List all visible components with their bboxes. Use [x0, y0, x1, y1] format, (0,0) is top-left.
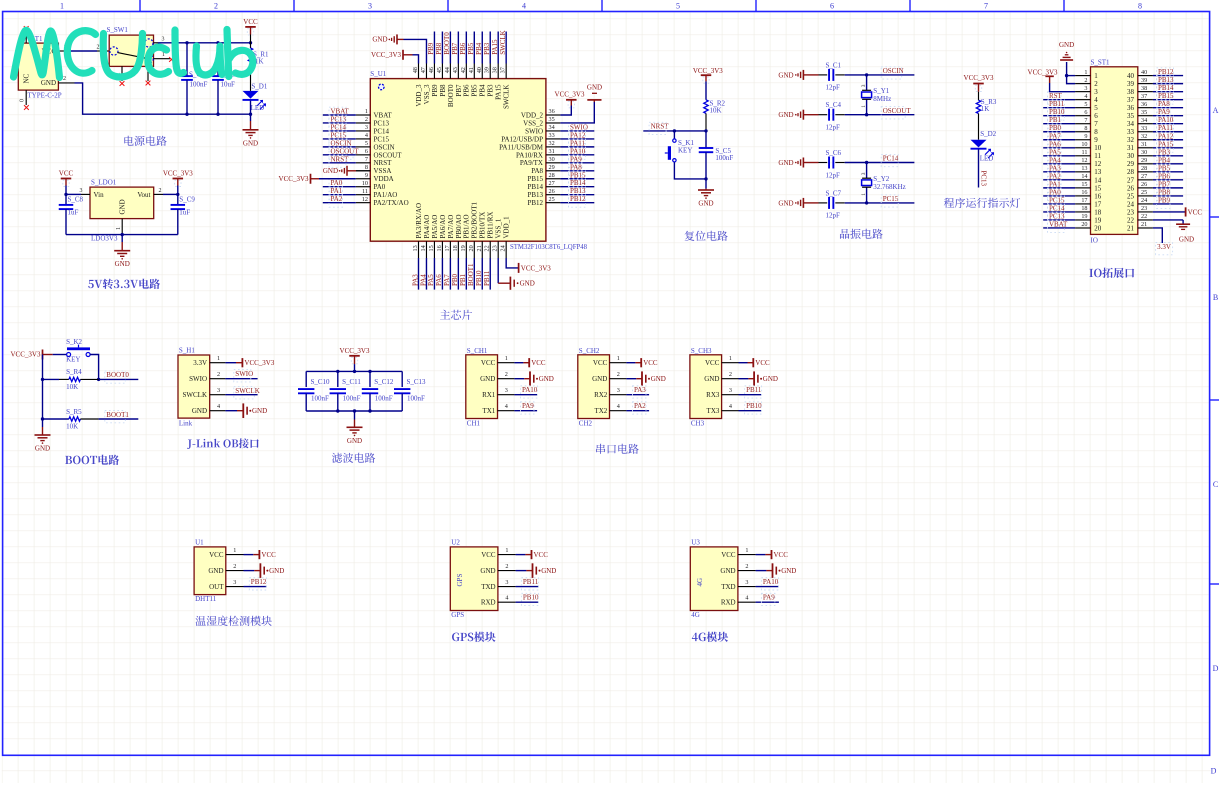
svg-text:PA0: PA0 — [374, 183, 386, 191]
svg-text:VCC_3V3: VCC_3V3 — [340, 347, 370, 355]
svg-text:PA7/AO: PA7/AO — [447, 215, 455, 239]
svg-text:10: 10 — [1094, 144, 1102, 152]
svg-text:VBAT: VBAT — [331, 108, 350, 116]
svg-text:S_H1: S_H1 — [179, 347, 195, 355]
svg-text:2: 2 — [505, 563, 508, 570]
svg-text:S_R5: S_R5 — [66, 408, 82, 416]
svg-text:PA2: PA2 — [634, 402, 646, 410]
svg-text:PA10/RX: PA10/RX — [516, 151, 543, 159]
svg-text:12pF: 12pF — [826, 212, 841, 220]
svg-text:PA3: PA3 — [634, 386, 646, 394]
svg-text:VCC: VCC — [705, 359, 720, 367]
svg-text:29: 29 — [1141, 157, 1147, 164]
svg-text:C: C — [1213, 480, 1218, 489]
svg-text:3: 3 — [729, 387, 732, 394]
svg-text:38: 38 — [1127, 88, 1135, 96]
svg-text:26: 26 — [1141, 181, 1147, 188]
svg-text:PA9: PA9 — [570, 155, 582, 163]
svg-text:VCC_3V3: VCC_3V3 — [163, 170, 193, 178]
svg-text:6: 6 — [365, 148, 368, 155]
svg-text:PB11: PB11 — [746, 386, 762, 394]
svg-text:S_ST1: S_ST1 — [1091, 59, 1111, 67]
svg-text:PB13: PB13 — [570, 187, 586, 195]
svg-text:2: 2 — [1084, 77, 1087, 84]
svg-text:BOOT0: BOOT0 — [443, 32, 451, 55]
svg-text:1: 1 — [505, 355, 508, 362]
svg-text:26: 26 — [549, 188, 555, 195]
svg-text:PA9: PA9 — [1158, 108, 1170, 116]
svg-text:GND: GND — [243, 139, 258, 147]
svg-text:VSS_1: VSS_1 — [495, 218, 503, 238]
svg-text:OSCOUT: OSCOUT — [331, 147, 360, 155]
svg-text:TX3: TX3 — [707, 407, 720, 415]
svg-text:PA12: PA12 — [570, 131, 586, 139]
svg-text:PB11: PB11 — [483, 270, 491, 286]
svg-text:39: 39 — [1127, 80, 1135, 88]
svg-text:4: 4 — [1084, 93, 1087, 100]
svg-text:32: 32 — [549, 140, 555, 147]
svg-text:3: 3 — [162, 37, 165, 43]
svg-text:19: 19 — [1094, 216, 1102, 224]
svg-text:PA9: PA9 — [522, 402, 534, 410]
svg-text:29: 29 — [1127, 160, 1135, 168]
svg-text:OSCOUT: OSCOUT — [883, 107, 912, 115]
svg-text:32: 32 — [1141, 133, 1147, 140]
svg-text:PC15: PC15 — [883, 195, 899, 203]
svg-text:PB5: PB5 — [1158, 164, 1171, 172]
svg-text:PB15: PB15 — [527, 175, 543, 183]
svg-text:GPS: GPS — [451, 611, 464, 619]
svg-text:3: 3 — [365, 124, 368, 131]
svg-text:VCC: VCC — [243, 18, 258, 26]
svg-text:PA5/AO: PA5/AO — [431, 215, 439, 239]
svg-text:36: 36 — [1141, 101, 1147, 108]
svg-text:VSSA: VSSA — [374, 167, 392, 175]
svg-text:S_K2: S_K2 — [66, 338, 82, 346]
svg-text:D: D — [1211, 767, 1217, 776]
svg-text:PC13: PC13 — [374, 119, 390, 127]
svg-text:PB7: PB7 — [451, 42, 459, 55]
svg-text:RX1: RX1 — [482, 391, 496, 399]
svg-text:GND: GND — [208, 567, 223, 575]
svg-text:OSCIN: OSCIN — [331, 139, 352, 147]
svg-text:SWIO: SWIO — [525, 127, 543, 135]
svg-text:1: 1 — [1084, 69, 1087, 76]
svg-text:GND: GND — [520, 280, 535, 288]
svg-text:2: 2 — [233, 563, 236, 570]
svg-text:10K: 10K — [66, 383, 78, 391]
svg-text:18: 18 — [1094, 208, 1102, 216]
svg-text:4G: 4G — [691, 611, 700, 619]
svg-text:PA4: PA4 — [1049, 156, 1061, 164]
svg-text:1: 1 — [745, 547, 748, 554]
svg-text:PA2/TX/AO: PA2/TX/AO — [374, 199, 409, 207]
svg-text:2: 2 — [745, 563, 748, 570]
svg-text:GND: GND — [1179, 236, 1194, 244]
svg-text:26: 26 — [1127, 184, 1135, 192]
svg-text:1: 1 — [233, 547, 236, 554]
svg-text:PA12/USB/DP: PA12/USB/DP — [501, 135, 543, 143]
svg-text:PB5: PB5 — [471, 84, 479, 97]
svg-text:PA2: PA2 — [331, 195, 343, 203]
svg-text:28: 28 — [549, 172, 555, 179]
svg-text:3: 3 — [217, 387, 220, 394]
svg-text:VCC_3V3: VCC_3V3 — [1028, 68, 1058, 76]
svg-text:GND: GND — [347, 437, 362, 445]
svg-text:PB12: PB12 — [251, 578, 267, 586]
svg-text:12: 12 — [362, 196, 368, 203]
svg-text:PB8: PB8 — [435, 42, 443, 55]
svg-text:PA4: PA4 — [419, 274, 427, 286]
svg-text:S_Y1: S_Y1 — [873, 87, 889, 95]
svg-text:PB1: PB1 — [1049, 116, 1062, 124]
svg-text:0: 0 — [19, 99, 25, 102]
svg-text:5: 5 — [365, 140, 368, 147]
svg-text:PB12: PB12 — [527, 199, 543, 207]
svg-text:S_C12: S_C12 — [374, 378, 394, 386]
svg-text:4: 4 — [617, 403, 620, 410]
svg-text:PB6: PB6 — [1158, 172, 1171, 180]
svg-text:S_C6: S_C6 — [826, 149, 842, 157]
svg-text:PB9: PB9 — [427, 42, 435, 55]
svg-text:2: 2 — [97, 44, 100, 50]
svg-text:PA11/USB/DM: PA11/USB/DM — [499, 143, 544, 151]
svg-text:1K: 1K — [981, 105, 990, 113]
svg-text:5: 5 — [1094, 104, 1098, 112]
svg-text:PC14: PC14 — [1049, 204, 1065, 212]
svg-text:BOOT0: BOOT0 — [447, 84, 455, 107]
svg-text:OSCIN: OSCIN — [883, 67, 904, 75]
svg-text:2: 2 — [505, 371, 508, 378]
svg-text:37: 37 — [1141, 93, 1147, 100]
svg-text:TXD: TXD — [721, 583, 735, 591]
svg-text:RXD: RXD — [481, 599, 496, 607]
svg-text:100nF: 100nF — [311, 394, 329, 402]
svg-text:B: B — [1213, 293, 1218, 302]
svg-text:GND: GND — [539, 375, 554, 383]
svg-text:6: 6 — [1084, 109, 1087, 116]
svg-text:PB12: PB12 — [570, 195, 586, 203]
svg-text:KEY: KEY — [66, 356, 80, 364]
svg-text:STM32F103C8T6_LQFP48: STM32F103C8T6_LQFP48 — [510, 244, 588, 251]
svg-text:LED: LED — [980, 155, 994, 163]
svg-text:1: 1 — [365, 108, 368, 115]
svg-text:PA7: PA7 — [443, 274, 451, 286]
svg-text:CH3: CH3 — [691, 420, 705, 428]
svg-text:GND: GND — [269, 567, 284, 575]
svg-text:BOOT0: BOOT0 — [106, 371, 129, 379]
svg-text:11: 11 — [1094, 152, 1101, 160]
svg-text:3: 3 — [861, 172, 867, 175]
svg-text:PB9: PB9 — [431, 84, 439, 97]
svg-text:S_CH3: S_CH3 — [691, 347, 712, 355]
svg-text:34: 34 — [549, 124, 555, 131]
svg-text:27: 27 — [1141, 173, 1147, 180]
svg-text:PB10: PB10 — [746, 402, 762, 410]
svg-text:100nF: 100nF — [715, 154, 733, 162]
svg-text:GND: GND — [778, 199, 793, 207]
svg-text:GND: GND — [592, 375, 607, 383]
svg-text:S_D2: S_D2 — [980, 130, 996, 138]
svg-text:21: 21 — [1141, 221, 1147, 228]
svg-text:23: 23 — [1127, 208, 1135, 216]
svg-text:4: 4 — [217, 403, 220, 410]
svg-text:GND: GND — [698, 200, 713, 208]
svg-text:35: 35 — [549, 116, 555, 123]
svg-text:SWCLK: SWCLK — [183, 391, 208, 399]
svg-text:35: 35 — [1127, 112, 1135, 120]
svg-text:VCC: VCC — [534, 551, 549, 559]
svg-text:KEY: KEY — [678, 146, 692, 154]
svg-text:SWCLK: SWCLK — [499, 30, 507, 54]
svg-text:TX2: TX2 — [594, 407, 607, 415]
svg-text:S_D1: S_D1 — [251, 82, 267, 90]
svg-text:VCC: VCC — [531, 359, 546, 367]
svg-text:VBAT: VBAT — [1049, 220, 1068, 228]
svg-text:12pF: 12pF — [826, 171, 841, 179]
svg-text:3: 3 — [1084, 85, 1087, 92]
svg-text:20: 20 — [1081, 221, 1087, 228]
svg-text:PB10: PB10 — [523, 594, 539, 602]
svg-text:PC14: PC14 — [331, 123, 347, 131]
svg-text:VCC: VCC — [593, 359, 608, 367]
svg-text:PA3: PA3 — [1049, 164, 1061, 172]
svg-text:NRST: NRST — [374, 159, 393, 167]
svg-text:10uF: 10uF — [221, 81, 236, 89]
svg-text:U1: U1 — [195, 538, 204, 546]
svg-text:36: 36 — [549, 108, 555, 115]
svg-text:SWCLK: SWCLK — [235, 387, 259, 395]
svg-text:GND: GND — [778, 71, 793, 79]
svg-text:PB0: PB0 — [1049, 124, 1062, 132]
svg-text:PB3: PB3 — [1158, 148, 1171, 156]
svg-text:GND: GND — [372, 36, 387, 44]
svg-text:33: 33 — [1127, 128, 1135, 136]
svg-text:38: 38 — [1141, 85, 1147, 92]
svg-text:GND: GND — [323, 167, 338, 175]
svg-text:S_C8: S_C8 — [68, 196, 84, 204]
svg-text:3: 3 — [368, 2, 372, 11]
svg-text:PB6: PB6 — [459, 42, 467, 55]
svg-text:34: 34 — [1141, 117, 1147, 124]
svg-text:30: 30 — [549, 156, 555, 163]
svg-text:37: 37 — [1127, 96, 1135, 104]
svg-text:1: 1 — [217, 355, 220, 362]
svg-text:32.768KHz: 32.768KHz — [873, 183, 905, 191]
svg-text:13: 13 — [1094, 168, 1102, 176]
svg-text:PA0: PA0 — [331, 179, 343, 187]
svg-text:NC: NC — [23, 73, 31, 83]
svg-text:33: 33 — [549, 132, 555, 139]
svg-text:GND: GND — [480, 375, 495, 383]
svg-text:PA6/AO: PA6/AO — [439, 215, 447, 239]
svg-text:6: 6 — [1094, 112, 1098, 120]
svg-text:S_Y2: S_Y2 — [873, 175, 889, 183]
svg-text:PA3/RX/AO: PA3/RX/AO — [415, 203, 423, 239]
svg-text:CH2: CH2 — [579, 420, 593, 428]
svg-text:RST: RST — [1049, 92, 1063, 100]
svg-text:9: 9 — [1094, 136, 1098, 144]
svg-text:DHT11: DHT11 — [195, 595, 217, 603]
svg-text:1uF: 1uF — [68, 209, 79, 217]
svg-text:PA9: PA9 — [763, 594, 775, 602]
svg-text:BOOT1: BOOT1 — [467, 263, 475, 286]
svg-text:2: 2 — [365, 116, 368, 123]
svg-text:PB5: PB5 — [467, 42, 475, 55]
svg-text:1: 1 — [729, 355, 732, 362]
svg-text:PB15: PB15 — [570, 171, 586, 179]
svg-text:16: 16 — [1094, 192, 1102, 200]
svg-text:S_C1: S_C1 — [826, 61, 842, 69]
svg-text:30: 30 — [1141, 149, 1147, 156]
svg-text:PA0: PA0 — [1049, 188, 1061, 196]
svg-text:GPS: GPS — [456, 574, 464, 587]
svg-text:8: 8 — [1138, 2, 1142, 11]
svg-text:PB3: PB3 — [483, 42, 491, 55]
svg-text:3: 3 — [505, 387, 508, 394]
svg-text:8MHz: 8MHz — [873, 95, 891, 103]
svg-text:9: 9 — [365, 172, 368, 179]
svg-text:PB0: PB0 — [451, 273, 459, 286]
svg-text:U2: U2 — [451, 538, 460, 546]
svg-text:GND: GND — [587, 83, 602, 91]
svg-text:PB4: PB4 — [475, 42, 483, 55]
svg-text:10: 10 — [362, 180, 368, 187]
svg-text:31: 31 — [549, 148, 555, 155]
svg-text:PB14: PB14 — [1158, 84, 1174, 92]
svg-text:12: 12 — [1081, 157, 1087, 164]
svg-text:11: 11 — [362, 188, 368, 195]
svg-text:VDD_2: VDD_2 — [521, 111, 544, 119]
svg-text:LED: LED — [251, 104, 265, 112]
svg-text:PA10: PA10 — [1158, 116, 1174, 124]
svg-text:3: 3 — [1094, 88, 1098, 96]
svg-text:2: 2 — [217, 371, 220, 378]
svg-text:PC15: PC15 — [331, 131, 347, 139]
svg-text:8: 8 — [1094, 128, 1098, 136]
svg-text:VCC: VCC — [59, 170, 74, 178]
svg-text:Vout: Vout — [137, 191, 150, 199]
svg-text:PB6: PB6 — [463, 84, 471, 97]
svg-text:4: 4 — [729, 403, 732, 410]
svg-text:VCC_3V3: VCC_3V3 — [371, 51, 401, 59]
svg-text:GND: GND — [192, 407, 207, 415]
svg-text:18: 18 — [1081, 205, 1087, 212]
svg-text:13: 13 — [1081, 165, 1087, 172]
svg-text:28: 28 — [1127, 168, 1135, 176]
svg-text:33: 33 — [1141, 125, 1147, 132]
svg-text:2: 2 — [1094, 80, 1098, 88]
svg-text:39: 39 — [1141, 77, 1147, 84]
svg-text:PA6: PA6 — [1049, 140, 1061, 148]
svg-text:OSCOUT: OSCOUT — [374, 151, 403, 159]
svg-text:VSS_2: VSS_2 — [523, 119, 543, 127]
svg-text:PA8: PA8 — [570, 163, 582, 171]
svg-text:7: 7 — [1084, 117, 1087, 124]
svg-text:12pF: 12pF — [826, 84, 841, 92]
svg-text:VCC_3V3: VCC_3V3 — [11, 351, 41, 359]
svg-text:PB1/AO: PB1/AO — [463, 214, 471, 238]
svg-text:10K: 10K — [66, 423, 78, 431]
svg-text:1: 1 — [116, 227, 122, 230]
svg-text:CH1: CH1 — [467, 420, 481, 428]
svg-text:PB14: PB14 — [527, 183, 543, 191]
svg-text:VCC: VCC — [261, 551, 276, 559]
svg-text:34: 34 — [1127, 120, 1135, 128]
svg-text:24: 24 — [1127, 200, 1135, 208]
svg-text:PC14: PC14 — [374, 127, 390, 135]
svg-text:PB4: PB4 — [479, 84, 487, 97]
svg-text:1: 1 — [60, 2, 64, 11]
svg-text:3: 3 — [80, 188, 83, 194]
svg-text:LDO3V3: LDO3V3 — [91, 235, 118, 243]
svg-text:PB1: PB1 — [459, 273, 467, 286]
svg-text:28: 28 — [1141, 165, 1147, 172]
svg-text:VCC_3V3: VCC_3V3 — [244, 359, 274, 367]
svg-text:30: 30 — [1127, 152, 1135, 160]
svg-text:3: 3 — [617, 387, 620, 394]
svg-text:PB9: PB9 — [1158, 196, 1171, 204]
svg-text:2: 2 — [617, 371, 620, 378]
svg-text:3.3V: 3.3V — [1157, 243, 1171, 251]
svg-text:PB11/RX: PB11/RX — [487, 212, 495, 239]
svg-text:VCC_3V3: VCC_3V3 — [279, 175, 309, 183]
svg-text:5: 5 — [1084, 101, 1087, 108]
svg-text:S_R4: S_R4 — [66, 368, 82, 376]
svg-text:2: 2 — [159, 188, 162, 194]
svg-text:S_C9: S_C9 — [179, 196, 195, 204]
svg-text:PA10: PA10 — [522, 386, 538, 394]
svg-text:9: 9 — [1084, 133, 1087, 140]
svg-text:100nF: 100nF — [343, 394, 361, 402]
svg-text:2: 2 — [729, 371, 732, 378]
svg-text:GND: GND — [480, 567, 495, 575]
svg-text:OSCIN: OSCIN — [374, 143, 395, 151]
svg-text:3.3V: 3.3V — [193, 359, 207, 367]
svg-text:PC15: PC15 — [374, 135, 390, 143]
svg-text:16: 16 — [1081, 189, 1087, 196]
svg-text:14: 14 — [1094, 176, 1102, 184]
svg-text:VDDA: VDDA — [374, 175, 394, 183]
svg-text:PB2/BOOT1: PB2/BOOT1 — [471, 201, 479, 238]
svg-text:10K: 10K — [710, 107, 722, 115]
svg-text:19: 19 — [1081, 213, 1087, 220]
svg-text:TXD: TXD — [481, 583, 495, 591]
svg-text:OUT: OUT — [209, 583, 224, 591]
svg-text:PA15: PA15 — [491, 39, 499, 55]
svg-text:GND: GND — [720, 567, 735, 575]
svg-text:PA5: PA5 — [1049, 148, 1061, 156]
svg-text:1: 1 — [505, 547, 508, 554]
svg-text:RX2: RX2 — [594, 391, 608, 399]
svg-text:GND: GND — [651, 375, 666, 383]
svg-text:VCC: VCC — [481, 551, 496, 559]
svg-text:GND: GND — [781, 567, 796, 575]
svg-text:PB13: PB13 — [1158, 76, 1174, 84]
svg-text:5: 5 — [676, 2, 680, 11]
svg-text:PB3: PB3 — [487, 84, 495, 97]
svg-text:GND: GND — [1059, 41, 1074, 49]
svg-text:PB0/AO: PB0/AO — [455, 214, 463, 238]
svg-text:31: 31 — [1141, 141, 1147, 148]
svg-text:36: 36 — [1127, 104, 1135, 112]
svg-text:1: 1 — [861, 193, 867, 196]
svg-text:PB14: PB14 — [570, 179, 586, 187]
svg-text:GND: GND — [252, 407, 267, 415]
svg-text:11: 11 — [1082, 149, 1088, 156]
svg-text:VCC: VCC — [209, 551, 224, 559]
svg-text:PA15: PA15 — [495, 84, 503, 100]
